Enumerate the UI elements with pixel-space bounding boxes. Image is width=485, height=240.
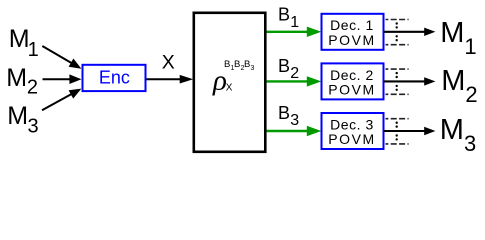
svg-text:M: M — [9, 25, 30, 53]
wire arrow Dec. 3 output — [384, 127, 435, 135]
decoder box Dec. 2 POVM — [322, 63, 384, 99]
vertical ellipsis dots above arrow of Dec. 1 — [396, 22, 398, 28]
svg-text:B: B — [234, 59, 240, 70]
input message label M2 — [6, 64, 38, 99]
svg-text:3: 3 — [290, 112, 299, 129]
svg-text:3: 3 — [464, 131, 476, 156]
svg-text:B: B — [244, 59, 250, 70]
wire arrow B2 channel output — [267, 76, 322, 86]
dashed outcome line top of Dec. 2 — [386, 68, 409, 70]
svg-text:3: 3 — [28, 115, 39, 137]
vertical ellipsis dots below arrow of Dec. 2 — [396, 85, 398, 91]
dashed outcome line bottom of Dec. 1 — [386, 44, 409, 46]
svg-text:B: B — [278, 103, 290, 123]
svg-text:M: M — [441, 65, 465, 97]
svg-text:Dec. 3: Dec. 3 — [330, 116, 374, 132]
svg-text:POVM: POVM — [328, 82, 375, 98]
dashed outcome line top of Dec. 1 — [386, 19, 409, 21]
svg-text:X: X — [226, 83, 233, 94]
vertical ellipsis dots below arrow of Dec. 3 — [396, 134, 398, 140]
svg-text:1: 1 — [28, 39, 39, 61]
wire arrow M3 to Enc — [42, 89, 81, 111]
dashed outcome line top of Dec. 3 — [386, 118, 409, 120]
svg-text:B: B — [224, 59, 230, 70]
vertical ellipsis dots below arrow of Dec. 1 — [396, 35, 398, 41]
svg-text:X: X — [162, 52, 175, 74]
svg-text:POVM: POVM — [328, 131, 375, 147]
output message label M2 — [441, 65, 477, 107]
wire arrow X from Enc to channel state — [147, 75, 194, 84]
svg-text:2: 2 — [27, 77, 38, 99]
svg-text:Enc: Enc — [99, 68, 130, 88]
svg-text:2: 2 — [465, 82, 477, 107]
svg-text:2: 2 — [290, 65, 299, 82]
encoder box Enc — [83, 65, 146, 91]
vertical ellipsis dots above arrow of Dec. 3 — [396, 122, 398, 128]
svg-text:B: B — [278, 56, 290, 76]
svg-text:M: M — [440, 114, 464, 146]
node label B2 — [278, 56, 299, 82]
svg-text:1: 1 — [290, 14, 299, 31]
decoder box Dec. 1 POVM — [322, 14, 384, 50]
decoder box Dec. 3 POVM — [322, 113, 384, 149]
wire arrow M2 to Enc — [43, 74, 82, 84]
wire arrow Dec. 2 output — [384, 77, 435, 85]
svg-text:POVM: POVM — [328, 32, 375, 48]
wire arrow Dec. 1 output — [384, 28, 435, 36]
label rho_X^B1B2B3 — [212, 59, 255, 96]
node label B3 — [278, 103, 299, 129]
svg-text:3: 3 — [251, 65, 255, 72]
node label B1 — [278, 5, 299, 31]
dashed outcome line bottom of Dec. 3 — [386, 143, 409, 145]
svg-text:1: 1 — [464, 34, 476, 59]
wire arrow B3 channel output — [267, 126, 322, 136]
svg-text:M: M — [7, 102, 28, 130]
vertical ellipsis dots above arrow of Dec. 2 — [396, 72, 398, 78]
output message label M3 — [440, 114, 476, 156]
channel state box rho_X^B1B2B3 — [194, 13, 265, 152]
svg-text:Dec. 2: Dec. 2 — [330, 67, 374, 83]
svg-text:Dec. 1: Dec. 1 — [330, 17, 374, 33]
svg-text:M: M — [6, 64, 27, 92]
svg-text:B: B — [278, 5, 290, 25]
wire arrow B1 channel output — [267, 27, 322, 37]
input message label M1 — [9, 25, 39, 61]
output message label M1 — [440, 17, 476, 59]
svg-text:M: M — [440, 17, 464, 49]
wire arrow M1 to Enc — [42, 46, 81, 69]
input message label M3 — [7, 102, 38, 137]
dashed outcome line bottom of Dec. 2 — [386, 93, 409, 95]
